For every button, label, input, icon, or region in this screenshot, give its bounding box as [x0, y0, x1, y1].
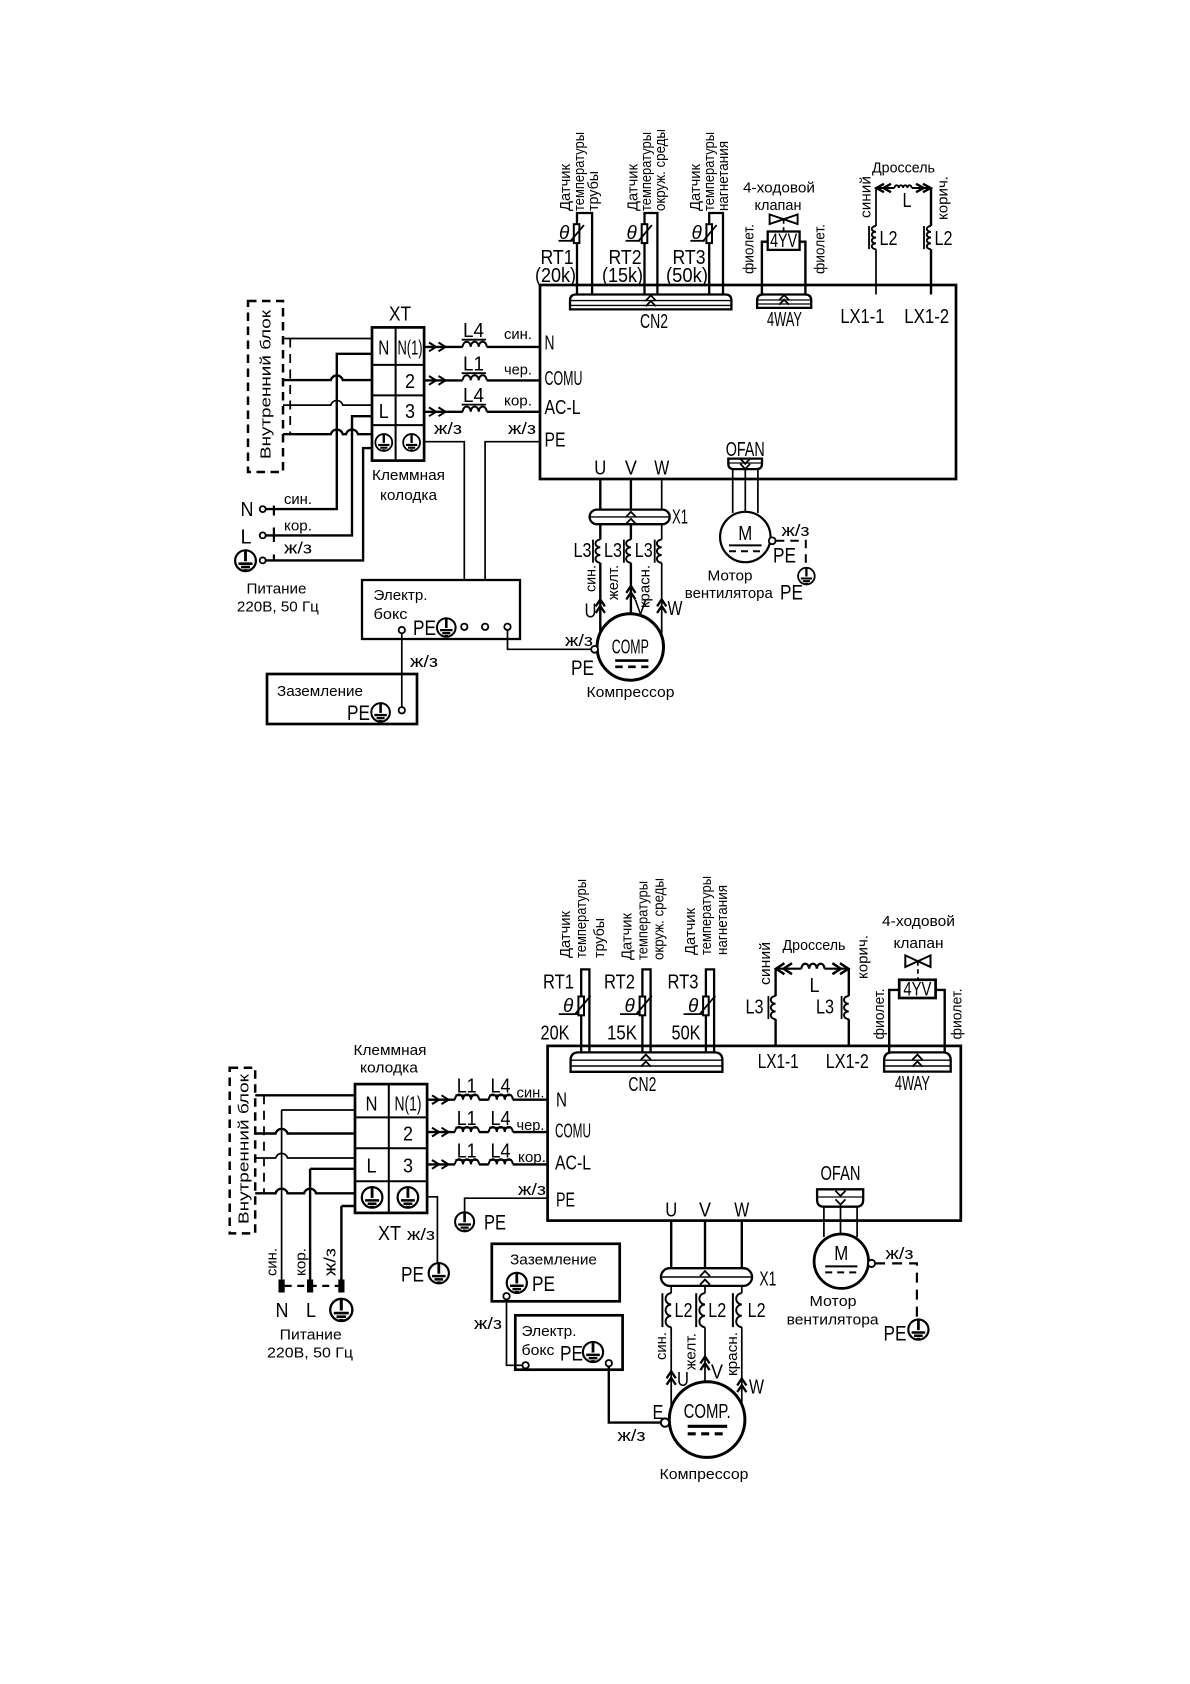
wire indoor line 1	[283, 338, 372, 340]
svg-text:нагнетания: нагнетания	[714, 885, 731, 955]
svg-text:ж/з: ж/з	[886, 1244, 914, 1263]
svg-text:OFAN: OFAN	[821, 1163, 861, 1185]
svg-text:Датчик: Датчик	[557, 911, 574, 958]
choke right wire	[930, 188, 932, 295]
terminal block XT	[372, 327, 424, 460]
svg-text:синий: синий	[858, 176, 875, 218]
svg-text:Датчик: Датчик	[619, 913, 636, 960]
valve symbol	[770, 215, 798, 225]
power terminal blob earth	[338, 1280, 344, 1293]
svg-text:кор.: кор.	[504, 393, 532, 410]
svg-text:L3: L3	[604, 540, 622, 562]
svg-text:N: N	[276, 1300, 289, 1322]
svg-text:L: L	[810, 975, 820, 997]
connector OFAN (bottom)	[817, 1189, 863, 1206]
wire indoor line 3 (hump)	[283, 400, 372, 405]
electro box (Электр. бокс)	[362, 580, 520, 639]
choke left wire	[875, 188, 877, 295]
wire X1 to comp V (bottom)	[704, 1286, 706, 1382]
svg-text:220В, 50 Гц: 220В, 50 Гц	[237, 599, 319, 616]
svg-text:W: W	[668, 598, 683, 620]
svg-text:Мотор: Мотор	[708, 568, 753, 585]
svg-text:ж/з: ж/з	[474, 1314, 502, 1333]
svg-text:N: N	[366, 1094, 378, 1116]
wire power earth to XT	[266, 448, 372, 560]
svg-text:L: L	[379, 401, 389, 423]
inductor L4 (AC-L wire)	[463, 407, 487, 412]
svg-text:ж/з: ж/з	[434, 419, 462, 438]
svg-text:Мотор: Мотор	[810, 1293, 857, 1310]
svg-text:фиолет.: фиолет.	[871, 989, 888, 1040]
wire indoor line 4 (two humps)	[283, 430, 372, 435]
svg-text:Компрессор: Компрессор	[660, 1466, 749, 1483]
connector 4WAY (bottom)	[884, 1052, 951, 1071]
svg-text:Компрессор: Компрессор	[587, 684, 675, 701]
vertical label sensor2 (bottom)	[619, 878, 668, 960]
XT earth symbol left	[375, 434, 392, 451]
svg-text:LX1-2: LX1-2	[826, 1051, 869, 1073]
wire W to X1	[661, 479, 663, 510]
electro box terminal 4	[504, 624, 510, 630]
svg-text:W: W	[654, 458, 669, 480]
wire power N to XT	[266, 354, 372, 509]
svg-text:4YV: 4YV	[770, 231, 797, 252]
svg-text:PE: PE	[347, 702, 370, 725]
svg-text:PE: PE	[780, 582, 803, 605]
svg-text:CN2: CN2	[640, 311, 668, 333]
wires OFAN to motor	[733, 469, 758, 513]
svg-text:окруж. среды: окруж. среды	[652, 129, 669, 211]
vertical label sensor3: Датчик температуры нагнетания	[687, 132, 732, 211]
wire board PE to earth (bottom)	[465, 1198, 548, 1212]
arrow U (comp bottom)	[667, 1371, 676, 1385]
svg-text:RT1: RT1	[543, 972, 574, 994]
svg-text:PE: PE	[413, 617, 436, 640]
PE earth symbol (XT bottom)	[429, 1263, 449, 1283]
inductor L4 (N wire)	[463, 342, 487, 347]
valve symbol (bottom)	[905, 955, 930, 967]
electro box Электр. бокс (bottom)	[515, 1315, 622, 1369]
svg-text:(50k): (50k)	[666, 265, 708, 287]
svg-text:кор.: кор.	[293, 1248, 310, 1276]
thermistor RT1 (bottom)	[575, 996, 590, 1016]
svg-text:LX1-1: LX1-1	[758, 1051, 799, 1073]
svg-text:Клеммная: Клеммная	[354, 1042, 427, 1059]
electro box terminal to ground box	[399, 627, 405, 633]
svg-text:L4: L4	[491, 1141, 511, 1163]
svg-text:L1: L1	[457, 1076, 477, 1098]
svg-text:U: U	[585, 601, 597, 623]
arrow V (comp bottom)	[700, 1357, 709, 1371]
wire power L to XT	[266, 416, 372, 535]
svg-text:(15k): (15k)	[602, 265, 643, 287]
wire XT PE to earth (bottom)	[427, 1197, 437, 1263]
wire AC-L with arrow	[429, 407, 446, 416]
wire COMU with arrow (bottom)	[432, 1128, 449, 1137]
svg-text:U: U	[665, 1200, 677, 1222]
wire 4YV left (bottom)	[889, 990, 899, 1053]
wire X1 to comp V	[630, 524, 632, 614]
svg-text:COMP: COMP	[612, 637, 649, 659]
wire ground box to electro box (bottom)	[507, 1299, 523, 1365]
solenoid 4YV box (bottom)	[899, 980, 935, 998]
svg-text:V: V	[625, 458, 638, 480]
svg-text:Заземление: Заземление	[277, 683, 363, 700]
choke arrow with coil L (bottom)	[776, 963, 849, 974]
svg-text:ж/з: ж/з	[518, 1180, 546, 1199]
svg-text:PE: PE	[560, 1343, 583, 1366]
valve dashed link	[783, 219, 785, 231]
inner dashed wire stub (bottom)	[263, 1095, 265, 1193]
wire U to X1 (bottom)	[670, 1221, 672, 1269]
solenoid 4YV box	[768, 232, 800, 250]
svg-text:LX1-1: LX1-1	[840, 306, 884, 328]
vertical label sensor1 (bottom)	[557, 879, 608, 958]
svg-text:PE: PE	[545, 430, 566, 452]
ground box (Заземление)	[267, 674, 417, 724]
svg-text:Внутренний блок: Внутренний блок	[258, 309, 275, 459]
coil L3 (V wire)	[626, 540, 631, 563]
svg-text:температуры: температуры	[573, 879, 590, 958]
wire X1 to comp W (bottom)	[741, 1286, 743, 1405]
svg-text:4WAY: 4WAY	[767, 309, 802, 331]
svg-text:XT: XT	[389, 304, 411, 326]
svg-text:температуры: температуры	[635, 881, 652, 960]
svg-text:L: L	[903, 190, 912, 212]
svg-text:L4: L4	[463, 320, 484, 342]
svg-text:трубы: трубы	[591, 918, 608, 958]
power terminal blob L	[307, 1280, 313, 1293]
vertical label sensor2: Датчик температуры окруж. среды	[624, 129, 669, 211]
svg-text:Датчик: Датчик	[682, 908, 699, 955]
inductor L1 (COMU wire)	[463, 375, 487, 380]
svg-text:син.: син.	[517, 1085, 545, 1102]
svg-text:бокс: бокс	[522, 1342, 556, 1359]
svg-text:L3: L3	[746, 997, 764, 1019]
svg-text:ж/з: ж/з	[284, 539, 312, 558]
wire XT PE to electro box	[424, 442, 464, 580]
wire U to X1	[599, 479, 601, 510]
svg-text:L4: L4	[491, 1076, 511, 1098]
choke arrow with coil L	[876, 184, 931, 192]
ground box terminal (bottom)	[503, 1293, 509, 1299]
svg-text:4-ходовой: 4-ходовой	[743, 180, 815, 197]
svg-text:корич.: корич.	[935, 176, 952, 220]
svg-text:V: V	[699, 1200, 712, 1222]
XT earth symbol right (bottom)	[398, 1187, 419, 1208]
compressor COMP. circle (bottom)	[669, 1382, 745, 1458]
svg-text:нагнетания: нагнетания	[715, 141, 732, 211]
dashed link power terminals	[273, 506, 275, 562]
wire X1 to comp U	[599, 524, 601, 633]
svg-text:Питание: Питание	[280, 1327, 342, 1344]
svg-text:син.: син.	[653, 1332, 670, 1360]
svg-text:AC-L: AC-L	[545, 397, 581, 419]
svg-text:PE: PE	[884, 1323, 907, 1346]
wire V to X1	[630, 479, 632, 510]
inductor L4 (AC-L wire bottom)	[489, 1159, 513, 1164]
svg-text:вентилятора: вентилятора	[685, 585, 774, 602]
svg-text:клапан: клапан	[755, 197, 802, 214]
svg-text:желт.: желт.	[683, 1333, 700, 1370]
power terminal blob N	[279, 1280, 285, 1293]
wire indoor line 1 (bottom)	[255, 1094, 355, 1096]
svg-text:L2: L2	[880, 228, 898, 250]
svg-text:Дроссель: Дроссель	[783, 937, 846, 954]
wire indoor line 3 (bottom, hump)	[255, 1153, 355, 1158]
svg-text:син.: син.	[583, 565, 600, 592]
motor PE earth symbol	[798, 568, 815, 585]
svg-text:чер.: чер.	[504, 362, 532, 379]
motor PE terminal (bottom)	[868, 1260, 875, 1267]
connector CN2 (bottom)	[571, 1052, 723, 1071]
thermistor RT3	[703, 224, 717, 243]
XT earth symbol left (bottom)	[362, 1187, 383, 1208]
svg-text:Внутренний блок: Внутренний блок	[236, 1073, 253, 1224]
svg-text:чер.: чер.	[517, 1117, 545, 1134]
svg-text:N: N	[556, 1090, 567, 1112]
svg-text:L2: L2	[935, 228, 953, 250]
svg-text:PE: PE	[556, 1190, 575, 1212]
electro box right terminal (bottom)	[606, 1360, 612, 1366]
dashed box Внутренний блок	[248, 301, 283, 472]
wire power L vertical (bottom)	[310, 1169, 355, 1280]
connector X1 (bottom)	[661, 1268, 752, 1286]
ground box terminal	[399, 707, 405, 713]
svg-text:3: 3	[405, 401, 415, 423]
inductor L1 (AC-L wire bottom)	[455, 1159, 479, 1164]
svg-text:L3: L3	[574, 540, 592, 562]
connector 4WAY	[757, 295, 811, 308]
svg-text:X1: X1	[672, 507, 688, 529]
svg-text:кор.: кор.	[284, 518, 312, 535]
coil L3 left (bottom)	[771, 996, 776, 1019]
svg-text:ж/з: ж/з	[565, 631, 593, 650]
svg-text:COMU: COMU	[545, 368, 583, 390]
wire indoor line 2 (hump)	[283, 375, 372, 380]
svg-text:L3: L3	[816, 997, 834, 1019]
svg-text:фиолет.: фиолет.	[741, 224, 758, 274]
thermistor RT2	[638, 224, 652, 243]
svg-text:синий: синий	[757, 942, 774, 985]
svg-text:15K: 15K	[607, 1023, 638, 1045]
svg-text:N: N	[378, 338, 389, 360]
svg-text:L1: L1	[457, 1141, 477, 1163]
svg-text:U: U	[594, 458, 606, 480]
vertical label sensor3 (bottom)	[682, 876, 731, 955]
svg-text:N: N	[241, 499, 254, 521]
dashed wire motor to PE earth (bottom)	[875, 1263, 917, 1317]
inductor L4 (N wire bottom)	[489, 1095, 513, 1100]
svg-text:L: L	[306, 1300, 316, 1322]
wire 4YV left	[762, 242, 768, 295]
wires OFAN to motor (bottom)	[824, 1207, 857, 1237]
svg-text:2: 2	[403, 1124, 413, 1146]
svg-text:красн.: красн.	[724, 1332, 741, 1376]
svg-text:Клеммная: Клеммная	[372, 467, 445, 484]
wire power N vertical (bottom)	[282, 1110, 355, 1280]
svg-text:L: L	[241, 527, 252, 549]
svg-text:L1: L1	[457, 1108, 477, 1130]
svg-text:AC-L: AC-L	[555, 1153, 591, 1175]
arrow V (comp)	[626, 586, 635, 600]
thermistor RT2 (bottom)	[637, 996, 652, 1016]
wire COMU with arrow	[429, 376, 446, 385]
choke left wire (bottom)	[774, 969, 776, 1046]
svg-text:ж/з: ж/з	[410, 652, 438, 671]
svg-text:L: L	[367, 1156, 377, 1178]
thermistor RT3 (bottom)	[700, 996, 715, 1016]
wire X1 to comp U (bottom)	[670, 1286, 672, 1408]
svg-text:Электр.: Электр.	[522, 1323, 577, 1340]
PE earth symbol (board bottom)	[455, 1212, 474, 1231]
arrow W (comp)	[657, 599, 666, 613]
svg-text:4-ходовой: 4-ходовой	[882, 913, 955, 930]
compressor E terminal (bottom)	[661, 1418, 669, 1426]
svg-text:RT2: RT2	[604, 972, 635, 994]
svg-text:50K: 50K	[672, 1023, 702, 1045]
electro box terminal 3	[482, 624, 488, 630]
svg-text:L2: L2	[675, 1300, 693, 1322]
choke right wire (bottom)	[848, 969, 850, 1046]
wire V to X1 (bottom)	[704, 1221, 706, 1269]
svg-text:4YV: 4YV	[903, 979, 931, 1000]
svg-text:вентилятора: вентилятора	[787, 1312, 880, 1329]
wire 4YV right	[800, 242, 806, 295]
temperature sensor RT2 probe	[645, 213, 658, 295]
inductor L1 (N wire bottom)	[455, 1095, 479, 1100]
dashed link power terminals (bottom)	[285, 1285, 339, 1287]
motor PE earth symbol (bottom)	[908, 1320, 928, 1340]
wire power earth vertical (bottom)	[341, 1206, 355, 1280]
svg-text:Электр.: Электр.	[374, 587, 428, 604]
svg-text:M: M	[738, 523, 752, 545]
fan motor M circle (bottom)	[814, 1234, 868, 1288]
svg-text:окруж. среды: окруж. среды	[651, 878, 668, 960]
arrow W (comp bottom)	[737, 1379, 746, 1393]
svg-text:бокс: бокс	[374, 606, 409, 623]
svg-text:20K: 20K	[541, 1023, 571, 1045]
svg-text:корич.: корич.	[855, 935, 872, 979]
svg-text:ж/з: ж/з	[407, 1225, 435, 1244]
wire board PE to electro box	[485, 442, 540, 580]
svg-text:N(1): N(1)	[398, 338, 423, 360]
compressor PE terminal	[591, 646, 598, 653]
svg-text:L2: L2	[748, 1300, 766, 1322]
svg-text:L3: L3	[635, 540, 653, 562]
power earth symbol	[235, 550, 256, 571]
motor PE terminal	[769, 537, 776, 544]
valve dashed link (bottom)	[917, 961, 919, 980]
wire electro box to compressor E (bottom)	[609, 1366, 661, 1422]
coil L2 (W wire bottom)	[736, 1293, 742, 1327]
wire AC-L with arrow (bottom)	[432, 1160, 449, 1169]
terminal block XT (bottom)	[355, 1084, 427, 1213]
svg-text:CN2: CN2	[628, 1074, 656, 1096]
svg-text:желт.: желт.	[605, 565, 622, 600]
electro box terminal 2	[461, 624, 467, 630]
coil L2 left	[872, 226, 876, 249]
svg-text:PE: PE	[532, 1273, 555, 1296]
svg-text:колодка: колодка	[380, 487, 438, 504]
temperature sensor RT3 probe	[709, 213, 723, 295]
svg-text:XT: XT	[378, 1223, 401, 1245]
wire electro box to ground box	[401, 633, 403, 707]
svg-text:PE: PE	[401, 1264, 424, 1287]
svg-text:W: W	[734, 1200, 749, 1222]
svg-text:COMP.: COMP.	[684, 1401, 731, 1423]
svg-text:фиолет.: фиолет.	[949, 989, 966, 1040]
svg-text:(20k): (20k)	[535, 265, 576, 287]
svg-text:L2: L2	[708, 1300, 726, 1322]
connector OFAN	[728, 459, 762, 470]
fan motor M circle	[720, 512, 770, 562]
connector CN2	[570, 295, 731, 310]
main control board (top diagram)	[540, 285, 956, 479]
svg-text:PE: PE	[484, 1212, 506, 1235]
svg-text:температуры: температуры	[698, 876, 715, 955]
wire indoor line 2 (bottom, hump)	[255, 1129, 355, 1134]
electro box left terminal (bottom)	[522, 1362, 528, 1368]
arrow U (comp)	[596, 599, 605, 613]
coil L3 (W wire)	[657, 540, 662, 563]
svg-text:PE: PE	[571, 657, 594, 680]
wire N with arrow (bottom)	[432, 1095, 449, 1104]
temperature sensor RT1 probe	[577, 213, 592, 295]
coil L3 right (bottom)	[844, 996, 849, 1019]
connector X1	[590, 510, 670, 525]
wire electro box to compressor PE	[508, 630, 592, 649]
svg-text:клапан: клапан	[894, 935, 944, 952]
wire indoor line 4 (bottom, two humps)	[255, 1189, 355, 1194]
wire W to X1 (bottom)	[741, 1221, 743, 1269]
coil L2 (U wire bottom)	[666, 1293, 672, 1327]
svg-text:N: N	[545, 333, 555, 355]
temperature sensor RT3 probe (bottom)	[706, 969, 714, 1052]
wire X1 to comp W	[661, 524, 663, 636]
svg-text:E: E	[653, 1402, 664, 1424]
dashed box Внутренний блок (bottom)	[230, 1068, 256, 1234]
svg-text:Дроссель: Дроссель	[872, 160, 935, 177]
svg-text:кор.: кор.	[518, 1149, 546, 1166]
coil L2 (V wire bottom)	[699, 1293, 705, 1327]
inner dashed wire stub	[289, 339, 291, 435]
svg-text:LX1-2: LX1-2	[904, 306, 949, 328]
svg-text:M: M	[834, 1243, 848, 1265]
inductor L1 (COMU wire bottom)	[455, 1127, 479, 1132]
dashed wire motor to PE earth	[776, 541, 806, 567]
svg-text:PE: PE	[773, 545, 796, 568]
compressor COMP circle	[597, 614, 663, 680]
svg-text:COMU: COMU	[555, 1121, 591, 1143]
main control board (bottom diagram)	[548, 1046, 961, 1221]
wire N with arrow	[429, 343, 446, 352]
svg-text:L4: L4	[491, 1108, 511, 1130]
coil L2 right	[927, 226, 931, 249]
ground box Заземление (bottom)	[492, 1244, 620, 1302]
svg-text:син.: син.	[504, 326, 532, 343]
svg-text:ж/з: ж/з	[508, 419, 536, 438]
vertical label sensor1: Датчик температуры трубы	[557, 132, 602, 211]
svg-text:син.: син.	[264, 1248, 281, 1276]
temperature sensor RT2 probe (bottom)	[642, 969, 650, 1052]
svg-text:3: 3	[403, 1156, 413, 1178]
svg-text:X1: X1	[759, 1269, 776, 1291]
svg-text:L1: L1	[463, 354, 484, 376]
svg-text:син.: син.	[284, 491, 312, 508]
svg-text:W: W	[749, 1377, 764, 1399]
svg-text:Заземление: Заземление	[510, 1252, 597, 1269]
